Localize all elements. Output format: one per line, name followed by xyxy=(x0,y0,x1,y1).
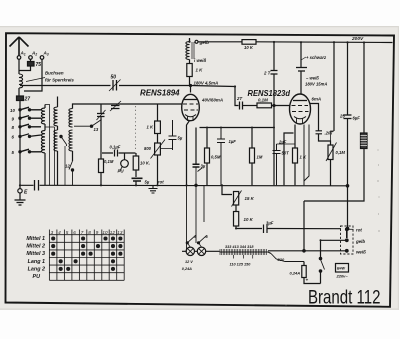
svg-text:220v~: 220v~ xyxy=(336,274,349,279)
svg-text:für Sperrkreis: für Sperrkreis xyxy=(45,78,74,83)
svg-text:25: 25 xyxy=(339,114,345,119)
resistor 10K rail xyxy=(242,40,256,45)
table row labels xyxy=(26,236,45,280)
svg-text:180V 4,5mA: 180V 4,5mA xyxy=(194,81,219,86)
resistor 1K cathode2 xyxy=(293,148,298,163)
svg-text:5µ: 5µ xyxy=(178,136,183,141)
tap 220 xyxy=(271,254,304,262)
switch mains xyxy=(319,257,321,259)
wire heater verticals xyxy=(187,186,205,252)
switch table grid xyxy=(49,230,124,281)
resistor 10K grid xyxy=(133,156,139,170)
terminal A2 xyxy=(29,56,33,60)
wire tone branch xyxy=(310,104,319,131)
terminal E xyxy=(19,185,21,188)
wire coupling top xyxy=(235,87,239,106)
terminal gelb xyxy=(346,239,349,242)
svg-text:+ schwarz: + schwarz xyxy=(306,55,327,60)
resistor 0,1M coupling xyxy=(257,103,272,108)
svg-text:0,24A: 0,24A xyxy=(182,267,192,271)
svg-text:3µF: 3µF xyxy=(266,221,274,226)
switch 12 xyxy=(69,161,73,185)
jack PU xyxy=(121,160,129,168)
resistor 0,1M left xyxy=(99,159,104,173)
svg-text:0,1M: 0,1M xyxy=(258,98,268,103)
wire tube2 cathode branch xyxy=(284,133,294,185)
variable capacitor C-tune1 xyxy=(97,114,105,117)
svg-text:Mittel 1: Mittel 1 xyxy=(26,236,45,242)
capacitor electrolytic plate xyxy=(296,42,307,94)
capacitor 3uF detector bypass xyxy=(195,128,197,165)
svg-text:rot: rot xyxy=(158,180,164,185)
svg-text:12 V: 12 V xyxy=(185,260,193,264)
svg-text:6mA: 6mA xyxy=(312,97,322,102)
wire A2 branch xyxy=(19,59,31,70)
svg-text:13: 13 xyxy=(117,230,123,235)
resistor 1K tube1 xyxy=(155,121,161,134)
svg-text:9: 9 xyxy=(96,230,99,235)
capacitor 5uF cathode xyxy=(132,178,143,181)
svg-text:8: 8 xyxy=(88,230,91,235)
terminal A3 xyxy=(40,56,44,60)
svg-text:10: 10 xyxy=(102,230,108,235)
svg-text:1 K: 1 K xyxy=(147,125,154,130)
component 27 xyxy=(18,88,20,96)
wire ground bus xyxy=(20,184,348,187)
wire coil C leads xyxy=(73,104,105,161)
lamp 3 xyxy=(186,247,194,255)
terminal A1 xyxy=(17,56,21,60)
svg-text:4: 4 xyxy=(58,230,61,235)
wire A3 branch xyxy=(24,59,42,91)
wire tube2 heater leads xyxy=(304,125,309,186)
coil HF transformer secondary xyxy=(69,109,73,152)
wire antenna main down xyxy=(19,101,21,108)
svg-text:10 K: 10 K xyxy=(244,217,254,222)
svg-text:6µF: 6µF xyxy=(353,116,361,121)
transformer mains winding xyxy=(220,252,272,254)
wire coil A leads xyxy=(44,105,46,186)
capacitor 20T xyxy=(316,131,323,134)
svg-text:6: 6 xyxy=(73,230,76,235)
svg-text:2T: 2T xyxy=(236,96,242,101)
terminal gelb top xyxy=(195,40,198,43)
capacitor bus series xyxy=(35,180,39,191)
wire detector line xyxy=(200,127,275,129)
tube RENS1823d xyxy=(290,94,311,124)
capacitor 6uF output xyxy=(344,115,352,119)
resistor 1M xyxy=(250,148,255,163)
svg-text:rot: rot xyxy=(356,228,362,233)
svg-text:0,1M: 0,1M xyxy=(104,159,114,164)
svg-text:0,1M: 0,1M xyxy=(336,150,346,155)
table header numbers xyxy=(51,230,123,235)
capacitor 2T screen xyxy=(271,71,278,75)
choke plate coil xyxy=(186,42,190,60)
lamp 4 xyxy=(197,247,205,255)
svg-text:7: 7 xyxy=(81,230,84,235)
svg-text:1 K: 1 K xyxy=(196,68,204,73)
coil HF transformer primary xyxy=(54,107,58,151)
wire lamps xyxy=(182,250,220,252)
junction dots bus xyxy=(346,185,348,187)
svg-text:weiß: weiß xyxy=(356,250,366,255)
wire output vertical xyxy=(347,43,349,115)
svg-text:Lang 1: Lang 1 xyxy=(28,259,45,265)
svg-text:75: 75 xyxy=(36,62,42,68)
antenna symbol xyxy=(10,37,29,56)
potentiometer 800 xyxy=(155,143,161,155)
svg-text:27: 27 xyxy=(24,97,31,103)
resistor 1K plate xyxy=(187,64,192,77)
svg-text:+: + xyxy=(306,278,309,283)
capacitor 50T xyxy=(273,144,281,185)
table dots xyxy=(51,236,122,271)
coil antenna winding 1 xyxy=(41,108,45,124)
border frame xyxy=(6,33,395,307)
terminal rot xyxy=(347,228,349,231)
svg-text:333 413 344 318: 333 413 344 318 xyxy=(225,245,254,249)
wire rail right branch xyxy=(333,42,335,131)
svg-text:10 K.: 10 K. xyxy=(140,161,150,166)
capacitor 0,1uF series xyxy=(102,152,136,154)
svg-text:gelb: gelb xyxy=(199,40,210,45)
svg-text:1 K: 1 K xyxy=(300,155,307,160)
svg-text:50: 50 xyxy=(111,75,117,81)
wire speaker step xyxy=(303,201,305,251)
fuse 0,24A xyxy=(303,262,305,266)
potentiometer 0,1M tone xyxy=(328,145,333,160)
svg-text:i weiß: i weiß xyxy=(194,58,207,63)
dotted gang link xyxy=(135,106,137,150)
svg-text:.20T: .20T xyxy=(325,131,334,136)
svg-text:110 125 150: 110 125 150 xyxy=(230,263,252,267)
rail 200V xyxy=(198,41,393,44)
wire grid line to tube1 xyxy=(104,103,182,105)
resistor 0,5M xyxy=(205,148,210,163)
svg-text:Buchsen: Buchsen xyxy=(45,71,64,76)
svg-text:10 K: 10 K xyxy=(244,45,254,50)
svg-text:2 T: 2 T xyxy=(263,71,271,76)
svg-text:12: 12 xyxy=(65,164,70,169)
trimmer capacitor 50 xyxy=(113,80,117,91)
wire grid top line xyxy=(20,86,235,87)
svg-text:Mittel 2: Mittel 2 xyxy=(26,244,45,250)
svg-text:3: 3 xyxy=(51,230,54,235)
tube RENS1894 xyxy=(182,94,200,120)
coil Sperrkreis xyxy=(18,59,20,74)
svg-text:Lang 2: Lang 2 xyxy=(28,266,45,272)
svg-text:B4W: B4W xyxy=(337,267,346,271)
svg-text:5µ: 5µ xyxy=(145,180,150,185)
svg-text:220: 220 xyxy=(277,257,285,262)
pointer line to Sperrkreis xyxy=(26,78,45,82)
svg-text:1µF: 1µF xyxy=(229,139,237,144)
coil antenna winding 2 xyxy=(41,131,45,153)
box mains plug xyxy=(336,264,349,273)
svg-text:Brandt 112: Brandt 112 xyxy=(308,288,381,309)
junction dots rail xyxy=(19,41,365,242)
band switch contact 5 xyxy=(20,149,41,152)
band switch contact 9 xyxy=(20,116,41,119)
switch 13 tuning xyxy=(92,120,102,127)
transformer taps xyxy=(234,255,253,259)
band switch contact 10 xyxy=(20,107,41,110)
svg-text:10: 10 xyxy=(10,108,15,113)
svg-text:2µF: 2µF xyxy=(278,140,287,145)
svg-text:– weiß: – weiß xyxy=(306,76,319,81)
svg-text:0,24A: 0,24A xyxy=(290,271,301,276)
coil 3000 field xyxy=(363,43,365,134)
svg-text:PU: PU xyxy=(118,169,125,174)
svg-text:800: 800 xyxy=(144,146,152,151)
svg-text:1M: 1M xyxy=(257,155,263,160)
svg-text:5: 5 xyxy=(66,230,69,235)
capacitor 2T coupling xyxy=(240,102,243,110)
switch 13a between coils xyxy=(61,137,67,147)
band switch contact 8 xyxy=(20,124,41,127)
specks xyxy=(286,150,380,306)
band switch contact 6 xyxy=(20,134,41,137)
svg-text:3µ: 3µ xyxy=(201,164,206,169)
resistor 75 xyxy=(28,62,35,67)
wire coil B leads xyxy=(57,97,59,186)
svg-text:RENS1894: RENS1894 xyxy=(140,89,180,98)
node secondary tap xyxy=(74,125,92,127)
wire antenna line to bus xyxy=(19,107,21,185)
svg-text:0,5M: 0,5M xyxy=(211,155,221,160)
svg-text:13: 13 xyxy=(94,127,99,132)
terminal weiss xyxy=(346,250,349,253)
svg-text:50T: 50T xyxy=(282,151,290,156)
wire screen 2T xyxy=(273,42,275,70)
capacitor 3uF xyxy=(264,225,268,234)
wire stack A to B links xyxy=(45,105,55,186)
variable capacitor C-tune2 xyxy=(111,106,120,109)
svg-text:40V/60mA: 40V/60mA xyxy=(201,98,223,103)
svg-text:gelb: gelb xyxy=(355,239,365,244)
capacitor 1uF xyxy=(217,128,225,186)
resistor 10K bias xyxy=(235,205,237,212)
wire plate rail up xyxy=(189,38,191,42)
speaker plug dashed box xyxy=(341,226,354,254)
wire tube1 grid cap stub xyxy=(190,86,192,93)
svg-text:200V: 200V xyxy=(351,36,364,42)
svg-text:Mittel 3: Mittel 3 xyxy=(26,251,45,257)
svg-text:0,1µF: 0,1µF xyxy=(110,145,121,150)
capacitor 5uF grid xyxy=(169,120,177,150)
wire tube1 cathode down xyxy=(187,121,190,186)
svg-text:PU: PU xyxy=(33,274,41,280)
potentiometer 15K xyxy=(222,185,232,194)
wire weiss to winding xyxy=(268,250,290,252)
svg-text:15 K: 15 K xyxy=(245,196,255,201)
svg-text:RENS1823d: RENS1823d xyxy=(248,89,292,98)
svg-text:180V 15mA: 180V 15mA xyxy=(305,82,327,87)
ground rot xyxy=(149,185,158,193)
svg-text:12: 12 xyxy=(110,230,116,235)
